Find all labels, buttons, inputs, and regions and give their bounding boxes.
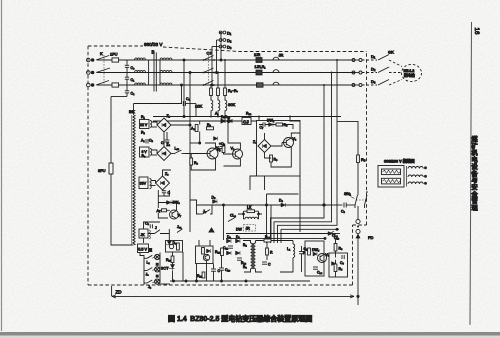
riser to D2: [216, 40, 218, 73]
resistor horizontal top: [207, 123, 214, 130]
JR contact dashed box: [244, 225, 256, 232]
transformer B primary line1: [135, 58, 149, 60]
transformer B primary star link: [148, 60, 150, 85]
winding 5.5V box: [138, 244, 153, 253]
capacitor C9: [341, 203, 355, 214]
fuse 1FU line1: [112, 58, 119, 62]
resistor R inside block2: [276, 123, 288, 127]
book title vertical text: [471, 136, 479, 213]
bottom bus: [170, 280, 310, 282]
block1 inner wires: [190, 121, 201, 144]
coil row 1: [408, 167, 427, 169]
long vertical from line1 x337: [336, 60, 338, 121]
small circle in box: [169, 244, 173, 248]
caps with plus: [223, 246, 233, 250]
contact L1: [171, 147, 185, 154]
transformer B2 core: [252, 243, 253, 269]
phase line 2: [97, 72, 355, 74]
output terminal pair line1: [352, 59, 362, 62]
thermal heater line2: [256, 70, 279, 75]
output diode D6b: [227, 251, 232, 255]
bus y238.4: [226, 237, 326, 239]
vertical long x190 from line2: [189, 72, 191, 233]
CJ pivot dots: [203, 59, 215, 86]
CL1 block box: [329, 253, 348, 277]
ZD arrow right: [112, 295, 354, 298]
bridge Z4: [253, 140, 271, 153]
outer dashed boundary bottom: [88, 284, 353, 286]
transformer B primary line3: [135, 83, 149, 85]
diode D4: [165, 241, 177, 245]
signal lamp 1: [155, 254, 160, 259]
contact J: [155, 226, 161, 234]
bus y205 to C9: [332, 204, 343, 206]
junction dot: [323, 204, 325, 206]
Z3 plumbing: [158, 170, 176, 218]
resistor R11 vertical: [166, 256, 174, 263]
3FU drop wire: [110, 97, 112, 164]
winding 22V box: [140, 120, 152, 129]
lamp rung wires: [152, 257, 154, 283]
wire 3FU to BK bottom: [111, 174, 132, 245]
resistor inside block2 low: [270, 155, 278, 162]
wire cap bottom to 3FU drop: [111, 96, 127, 98]
FD chain mid dot: [357, 226, 359, 228]
signal lamp 3: [155, 279, 160, 284]
page left edge border: [1, 0, 3, 331]
phase line 3: [97, 84, 355, 86]
resistor Ra: [210, 84, 213, 96]
signal lamp 2: [155, 267, 160, 272]
transformer B primary line2: [135, 70, 149, 72]
riser to D3: [211, 47, 213, 86]
resistor low mid: [197, 272, 205, 278]
capacitor C7: [260, 122, 266, 129]
caps with plus 2: [237, 258, 247, 265]
resistor Rb: [217, 72, 220, 96]
drill lead dash line2: [362, 72, 377, 74]
contact CL2: [228, 214, 236, 222]
wires around V1: [185, 143, 216, 170]
outer dashed boundary top: [88, 45, 143, 47]
ZD tick: [111, 286, 113, 296]
riser C4 from line3: [181, 84, 183, 104]
top terminals stub D1: [219, 31, 232, 36]
box bottom wires: [262, 241, 302, 273]
cap mid extra: [262, 262, 271, 267]
switch SN1 pole1: [355, 193, 358, 208]
BK top lead: [133, 104, 135, 116]
top terminals stub D3: [212, 45, 232, 50]
resistor Rc: [224, 59, 227, 96]
block2 bottom line y194: [267, 194, 299, 243]
contactor CJ blade line1: [204, 56, 214, 61]
capacitor C4: [134, 97, 197, 106]
tap dots: [323, 59, 338, 86]
vertical x184 line1 to bus: [183, 59, 185, 118]
outer dashed boundary right upper: [366, 52, 368, 226]
resistor R9 CL: [334, 264, 343, 272]
bridge Z2: [157, 147, 171, 161]
winding bar 1: [382, 169, 401, 175]
JK wires: [144, 222, 170, 243]
contact Jc: [177, 225, 183, 233]
relay triangle: [209, 228, 214, 232]
wire blk2 bottom to bus: [250, 176, 265, 190]
lamp rung 1 contact: [144, 255, 152, 264]
transformer B secondary star link: [159, 60, 161, 85]
wire Z1 right: [171, 124, 190, 126]
transistor V8: [318, 253, 330, 263]
bus y205 main: [197, 204, 332, 206]
bridge Z1: [157, 118, 171, 132]
resistor R6 h: [264, 235, 271, 242]
lamp bottom wire: [161, 283, 170, 285]
relay coil CJ: [242, 118, 251, 125]
FD chain top circle: [356, 219, 360, 223]
drill lead dash line1: [362, 59, 377, 61]
output diode D7b: [236, 251, 241, 255]
resistor R8: [190, 158, 199, 165]
contactor CJ blade line3: [204, 81, 214, 86]
resistor R8 CL: [334, 244, 343, 252]
transistor V1: [205, 146, 220, 159]
mid box rect: [196, 246, 214, 264]
resistor A2 vertical: [191, 125, 198, 132]
junction dots on lines: [220, 59, 222, 61]
right small box: [305, 241, 324, 276]
resistor R7: [217, 143, 225, 154]
transistor V3: [282, 137, 297, 148]
reactor coil a: [211, 96, 213, 117]
bridge Z3: [156, 176, 170, 190]
output terminal pair line2: [352, 71, 362, 74]
diode D5: [212, 196, 218, 204]
capacitor C11: [299, 246, 309, 259]
wire to L: [271, 240, 293, 242]
capacitor C6: [162, 190, 171, 196]
bus y233.5 with diode: [226, 232, 340, 241]
block2 right edge extension: [299, 176, 301, 232]
wire 22V to Z1: [152, 122, 158, 127]
misc top bus links: [259, 117, 300, 122]
CL1 wires: [335, 238, 337, 277]
cap C5b: [219, 142, 226, 149]
cap C5 between Z1 Z2: [161, 132, 169, 147]
junction block 2: [156, 275, 159, 278]
label A C caps: [141, 139, 154, 144]
long vertical from line2 x331.5: [274, 73, 332, 244]
input terminal pair line1: [87, 58, 95, 62]
caps bottom: [219, 256, 231, 282]
bus y229: [281, 228, 339, 243]
switch GK blade line1: [378, 55, 389, 61]
SCR 3CT: [161, 265, 175, 272]
transformer B secondary line3: [160, 83, 172, 85]
contactor CJ blade line2: [204, 68, 214, 73]
fuse 3FU: [109, 163, 113, 174]
resistor in box: [303, 248, 310, 255]
Z1-Z2 link: [163, 132, 165, 147]
bus junction dots: [210, 116, 291, 118]
wire R0 to SN: [357, 163, 359, 194]
lamp rung 3 contact: [144, 280, 152, 289]
riser to D1: [220, 33, 222, 61]
transformer BK primary zigzag: [132, 115, 136, 245]
B2 wires: [243, 241, 262, 273]
block2 box: [257, 121, 301, 177]
BK primary edge line: [131, 115, 133, 245]
wire 33V to Z3: [151, 181, 156, 186]
switch K blade line2: [96, 68, 110, 73]
outer dashed boundary right jog: [353, 224, 367, 226]
FD chain lower circle: [356, 229, 360, 233]
capacitor Cb: [125, 73, 135, 86]
transformer B2 left coil: [251, 243, 253, 269]
wire 6V to Z2: [152, 150, 158, 155]
transformer B secondary line2: [160, 70, 172, 72]
switch GK blade line3: [378, 80, 389, 86]
diode D10: [228, 119, 232, 123]
resistor in box: [177, 243, 180, 250]
V2 wires: [224, 120, 241, 166]
coil row 2: [408, 175, 427, 177]
zener DW3: [167, 201, 181, 205]
dot at ZD crossing: [357, 295, 359, 297]
electric drill motor ellipse: [402, 64, 422, 81]
relay JK box: [139, 229, 150, 239]
CL1 cap: [340, 255, 345, 265]
long vertical from line3 x324: [271, 85, 325, 243]
thermal heater 1JR line1: [256, 57, 279, 62]
transistor V4: [203, 254, 209, 260]
switch GK blade line2: [378, 67, 389, 73]
transformer B core: [154, 53, 156, 92]
transistor V7: [170, 210, 182, 219]
resistor R0: [357, 155, 360, 163]
CL1 zener: [332, 262, 336, 266]
inductor L vertical: [287, 241, 295, 263]
reactor coil c: [225, 96, 227, 117]
wire to R0: [337, 121, 358, 155]
input terminal pair line3: [87, 83, 95, 87]
CL1 label: [329, 231, 338, 238]
FD down wire: [357, 238, 359, 305]
lamp rung 2 contact: [144, 268, 152, 277]
ZD ground line: [112, 295, 354, 297]
transistor V2: [231, 147, 243, 160]
outer dashed boundary right lower: [352, 225, 354, 285]
capacitor C8: [145, 222, 152, 229]
lamp rail right: [159, 253, 161, 286]
vertical x337 lower: [278, 121, 338, 243]
winding 33V box: [139, 177, 151, 189]
bus y121: [153, 120, 257, 122]
transformer B secondary line1: [160, 58, 172, 60]
CJ linkage: [208, 55, 210, 84]
fuse line3: [112, 83, 119, 87]
output diode D6: [227, 235, 232, 243]
resistor A5: [157, 209, 167, 213]
SN linkage: [356, 199, 366, 201]
cap C14: [313, 267, 323, 275]
capacitor Ca vertical feed: [126, 60, 128, 65]
vertical x223.5 down: [223, 205, 225, 240]
capacitor C mid: [211, 264, 221, 282]
outer dashed boundary left: [87, 46, 89, 285]
diode DW5: [312, 248, 320, 256]
switch K blade line1: [96, 56, 109, 61]
diode small mid: [214, 137, 218, 141]
coil column line: [406, 166, 408, 187]
right margin rule: [470, 22, 472, 325]
zener DW2: [267, 119, 275, 127]
resistor right: [215, 248, 223, 256]
wire top row block2: [259, 125, 293, 130]
transformer B2 right coil: [254, 243, 256, 269]
switch K linkage: [103, 55, 105, 84]
bus y116.5: [153, 116, 341, 118]
block2 wires: [265, 133, 301, 167]
page bottom scan band: [0, 332, 500, 336]
coil row 3: [408, 182, 427, 184]
phase line 1: [97, 59, 355, 61]
output diode D7: [236, 235, 241, 243]
lamp rail left: [140, 253, 144, 286]
switch SN1 pole2: [365, 191, 368, 208]
reactor coil b: [218, 96, 220, 117]
wires left block to bus: [190, 200, 213, 214]
FD gap arrow: [356, 235, 360, 238]
junction block 1: [156, 263, 159, 266]
page bottom lighter band: [0, 336, 500, 338]
drop C4 to bus: [195, 104, 197, 117]
switch K blade line3: [96, 81, 109, 86]
resistor mid extra: [266, 242, 273, 260]
input terminal pair line2: [87, 71, 95, 75]
thermal heater line3: [257, 82, 280, 87]
connection diagram box: [378, 166, 404, 188]
drill lead dash line3: [362, 84, 377, 86]
BK bottom lead: [132, 244, 134, 246]
SN arrow: [351, 197, 355, 199]
SN to FD wire: [357, 206, 359, 220]
capacitor Cc: [125, 85, 135, 97]
output terminal pair line3: [352, 84, 362, 87]
bottom verticals: [173, 240, 211, 281]
contact Ja: [199, 210, 210, 215]
bottom mid block rect: [166, 241, 183, 253]
drill dashes to motor: [389, 60, 402, 67]
winding bar 2: [382, 178, 401, 184]
diode D9: [221, 119, 225, 123]
inductor LK: [238, 206, 262, 220]
diode D8 on bus: [279, 199, 286, 208]
winding 6V box: [140, 147, 152, 158]
top terminals stub D2: [217, 38, 232, 43]
capacitor Ca: [125, 65, 135, 72]
resistor in mid box: [202, 248, 211, 255]
